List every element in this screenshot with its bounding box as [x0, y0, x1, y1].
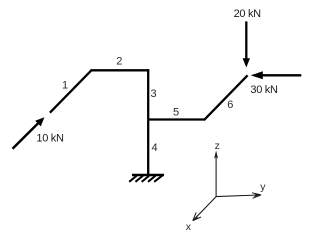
ground hatch 1	[129, 176, 137, 182]
ground hatch 4	[148, 176, 156, 182]
force arrow 10 kN head	[35, 117, 44, 126]
member 2	[90, 69, 149, 71]
ground hatch 5	[154, 176, 162, 182]
member 6	[204, 75, 248, 120]
svg-text:10 kN: 10 kN	[36, 133, 64, 145]
axis y barb bottom	[253, 195, 261, 198]
svg-text:2: 2	[116, 55, 122, 67]
axis y line	[216, 195, 261, 197]
svg-text:30 kN: 30 kN	[250, 84, 278, 96]
svg-text:1: 1	[62, 80, 68, 92]
svg-text:y: y	[260, 181, 266, 193]
ground hatch 2	[135, 176, 143, 182]
force arrow 30 kN shaft	[262, 74, 302, 76]
fixed support ground line	[132, 174, 164, 177]
member 4	[147, 119, 149, 175]
svg-text:4: 4	[152, 142, 158, 154]
force arrow 30 kN head	[251, 71, 263, 79]
force arrow 20 kN head	[243, 58, 250, 67]
force arrow 10 kN shaft	[13, 122, 40, 149]
force arrow 20 kN shaft	[245, 21, 247, 59]
svg-text:5: 5	[173, 107, 179, 119]
axis x barb right	[193, 217, 201, 221]
axis y barb top	[252, 193, 261, 195]
svg-text:20 kN: 20 kN	[234, 8, 262, 20]
svg-text:x: x	[186, 221, 192, 230]
svg-text:3: 3	[151, 88, 157, 100]
axis x barb left	[193, 212, 196, 220]
member 5	[148, 118, 205, 120]
member 1	[50, 70, 92, 112]
member 3	[147, 69, 149, 119]
axis z line	[215, 153, 217, 197]
axis x arrowhead	[193, 215, 199, 221]
ground hatch 3	[142, 176, 150, 182]
svg-text:6: 6	[227, 99, 233, 111]
axis z arrowhead	[214, 151, 218, 159]
axis y arrowhead	[254, 193, 262, 197]
svg-text:z: z	[215, 140, 220, 152]
axis x line	[193, 197, 216, 221]
